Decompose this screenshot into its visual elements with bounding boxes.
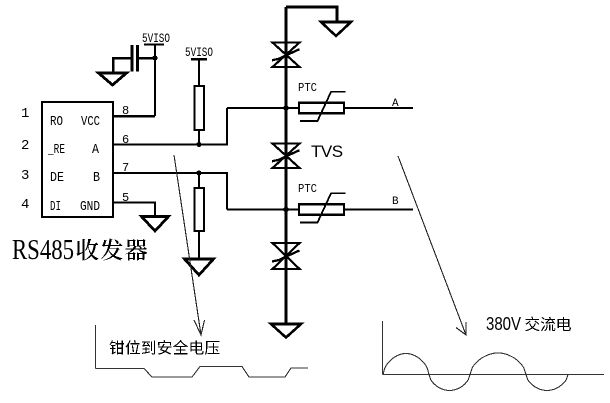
svg-text:PTC: PTC: [298, 182, 317, 196]
TVS diode D2 triangle lower: [273, 156, 300, 168]
TVS diode D2 zener bar: [272, 150, 300, 161]
svg-text:B: B: [93, 170, 100, 186]
svg-text:3: 3: [21, 168, 29, 184]
wire bus top L to ground: [286, 7, 337, 22]
svg-text:PTC: PTC: [298, 81, 317, 95]
PTC fuse F2 body: [299, 204, 344, 215]
node junction dot bus/A: [283, 105, 289, 111]
svg-text:RO: RO: [50, 114, 63, 130]
ground symbol at pin5: [142, 217, 169, 232]
ground symbol bus bottom: [271, 324, 301, 338]
svg-text:TVS: TVS: [311, 142, 343, 161]
wire pin6 to jog: [113, 108, 227, 145]
wire B right segment: [344, 209, 413, 211]
PTC fuse F1 diagonal stroke: [300, 92, 346, 121]
TVS diode D1 triangle upper: [273, 43, 300, 55]
wire R2 to ground: [198, 231, 200, 259]
PTC fuse F1 body: [299, 103, 344, 114]
annotation arrow to AC waveform: [398, 156, 466, 335]
svg-text:_RE: _RE: [47, 142, 65, 158]
wire protection bus vertical: [285, 7, 288, 324]
ground symbol at capacitor: [99, 73, 127, 85]
ground symbol under R2: [185, 259, 214, 275]
wire pin5 GND: [113, 203, 155, 217]
wire R1 to node: [198, 130, 200, 145]
annotation text AC CJK part: [525, 317, 571, 332]
capacitor C1 plate left: [131, 45, 134, 72]
svg-text:4: 4: [21, 197, 29, 213]
wire VCC vertical riser: [154, 45, 156, 116]
TVS diode D2 triangle upper: [273, 144, 300, 156]
TVS diode D3 triangle lower: [273, 256, 300, 269]
AC waveform sine trace: [383, 353, 576, 391]
wire rail to R1: [198, 59, 200, 86]
power rail 5VISO bar 2: [191, 58, 207, 61]
TVS diode D1 zener bar: [272, 49, 300, 60]
resistor R1: [195, 86, 205, 130]
PTC fuse F2 diagonal stroke: [300, 193, 346, 222]
wire A right segment: [344, 107, 413, 109]
svg-text:GND: GND: [80, 199, 100, 215]
node junction dot bus/B: [283, 207, 289, 213]
annotation arrow to clamp waveform: [174, 155, 205, 335]
TVS diode D1 triangle lower: [273, 55, 300, 67]
clamp waveform axis: [95, 325, 97, 369]
wire cap to junction: [139, 57, 155, 60]
capacitor C1 plate right: [136, 45, 139, 72]
AC waveform vertical axis: [382, 321, 384, 375]
svg-text:5VISO: 5VISO: [142, 31, 170, 46]
clamp waveform trace: [96, 367, 309, 378]
svg-text:380V: 380V: [486, 314, 521, 334]
wire node to R2: [198, 173, 200, 188]
TVS diode D3 zener bar: [272, 251, 300, 262]
power rail 5VISO bar 1: [144, 44, 164, 46]
wire cap to ground: [113, 58, 131, 73]
svg-text:RS485: RS485: [12, 235, 74, 266]
wire A left segment: [227, 107, 299, 109]
wire pin8 VCC: [113, 115, 155, 118]
svg-text:B: B: [392, 196, 399, 208]
svg-text:1: 1: [21, 106, 29, 122]
op-amp U1 RS485 transceiver body: [42, 102, 113, 217]
svg-text:A: A: [392, 98, 399, 110]
annotation text clamp-to-safe-voltage: [110, 340, 220, 355]
svg-text:2: 2: [21, 138, 29, 154]
node junction dot R1/wire6: [196, 142, 201, 147]
svg-text:DE: DE: [50, 170, 64, 186]
ground symbol top right: [321, 22, 351, 36]
node junction dot R2/wire7: [196, 170, 201, 175]
wire pin7: [113, 173, 227, 210]
svg-text:VCC: VCC: [81, 114, 100, 130]
node junction dot VCC/cap: [152, 55, 157, 60]
wire B left segment: [227, 209, 299, 211]
TVS diode D3 triangle upper: [273, 243, 300, 256]
caption transceiver CJK part: [77, 239, 148, 261]
svg-text:DI: DI: [50, 199, 61, 215]
svg-text:A: A: [92, 142, 99, 158]
resistor R2: [195, 188, 205, 231]
AC waveform horizontal axis: [383, 374, 605, 376]
